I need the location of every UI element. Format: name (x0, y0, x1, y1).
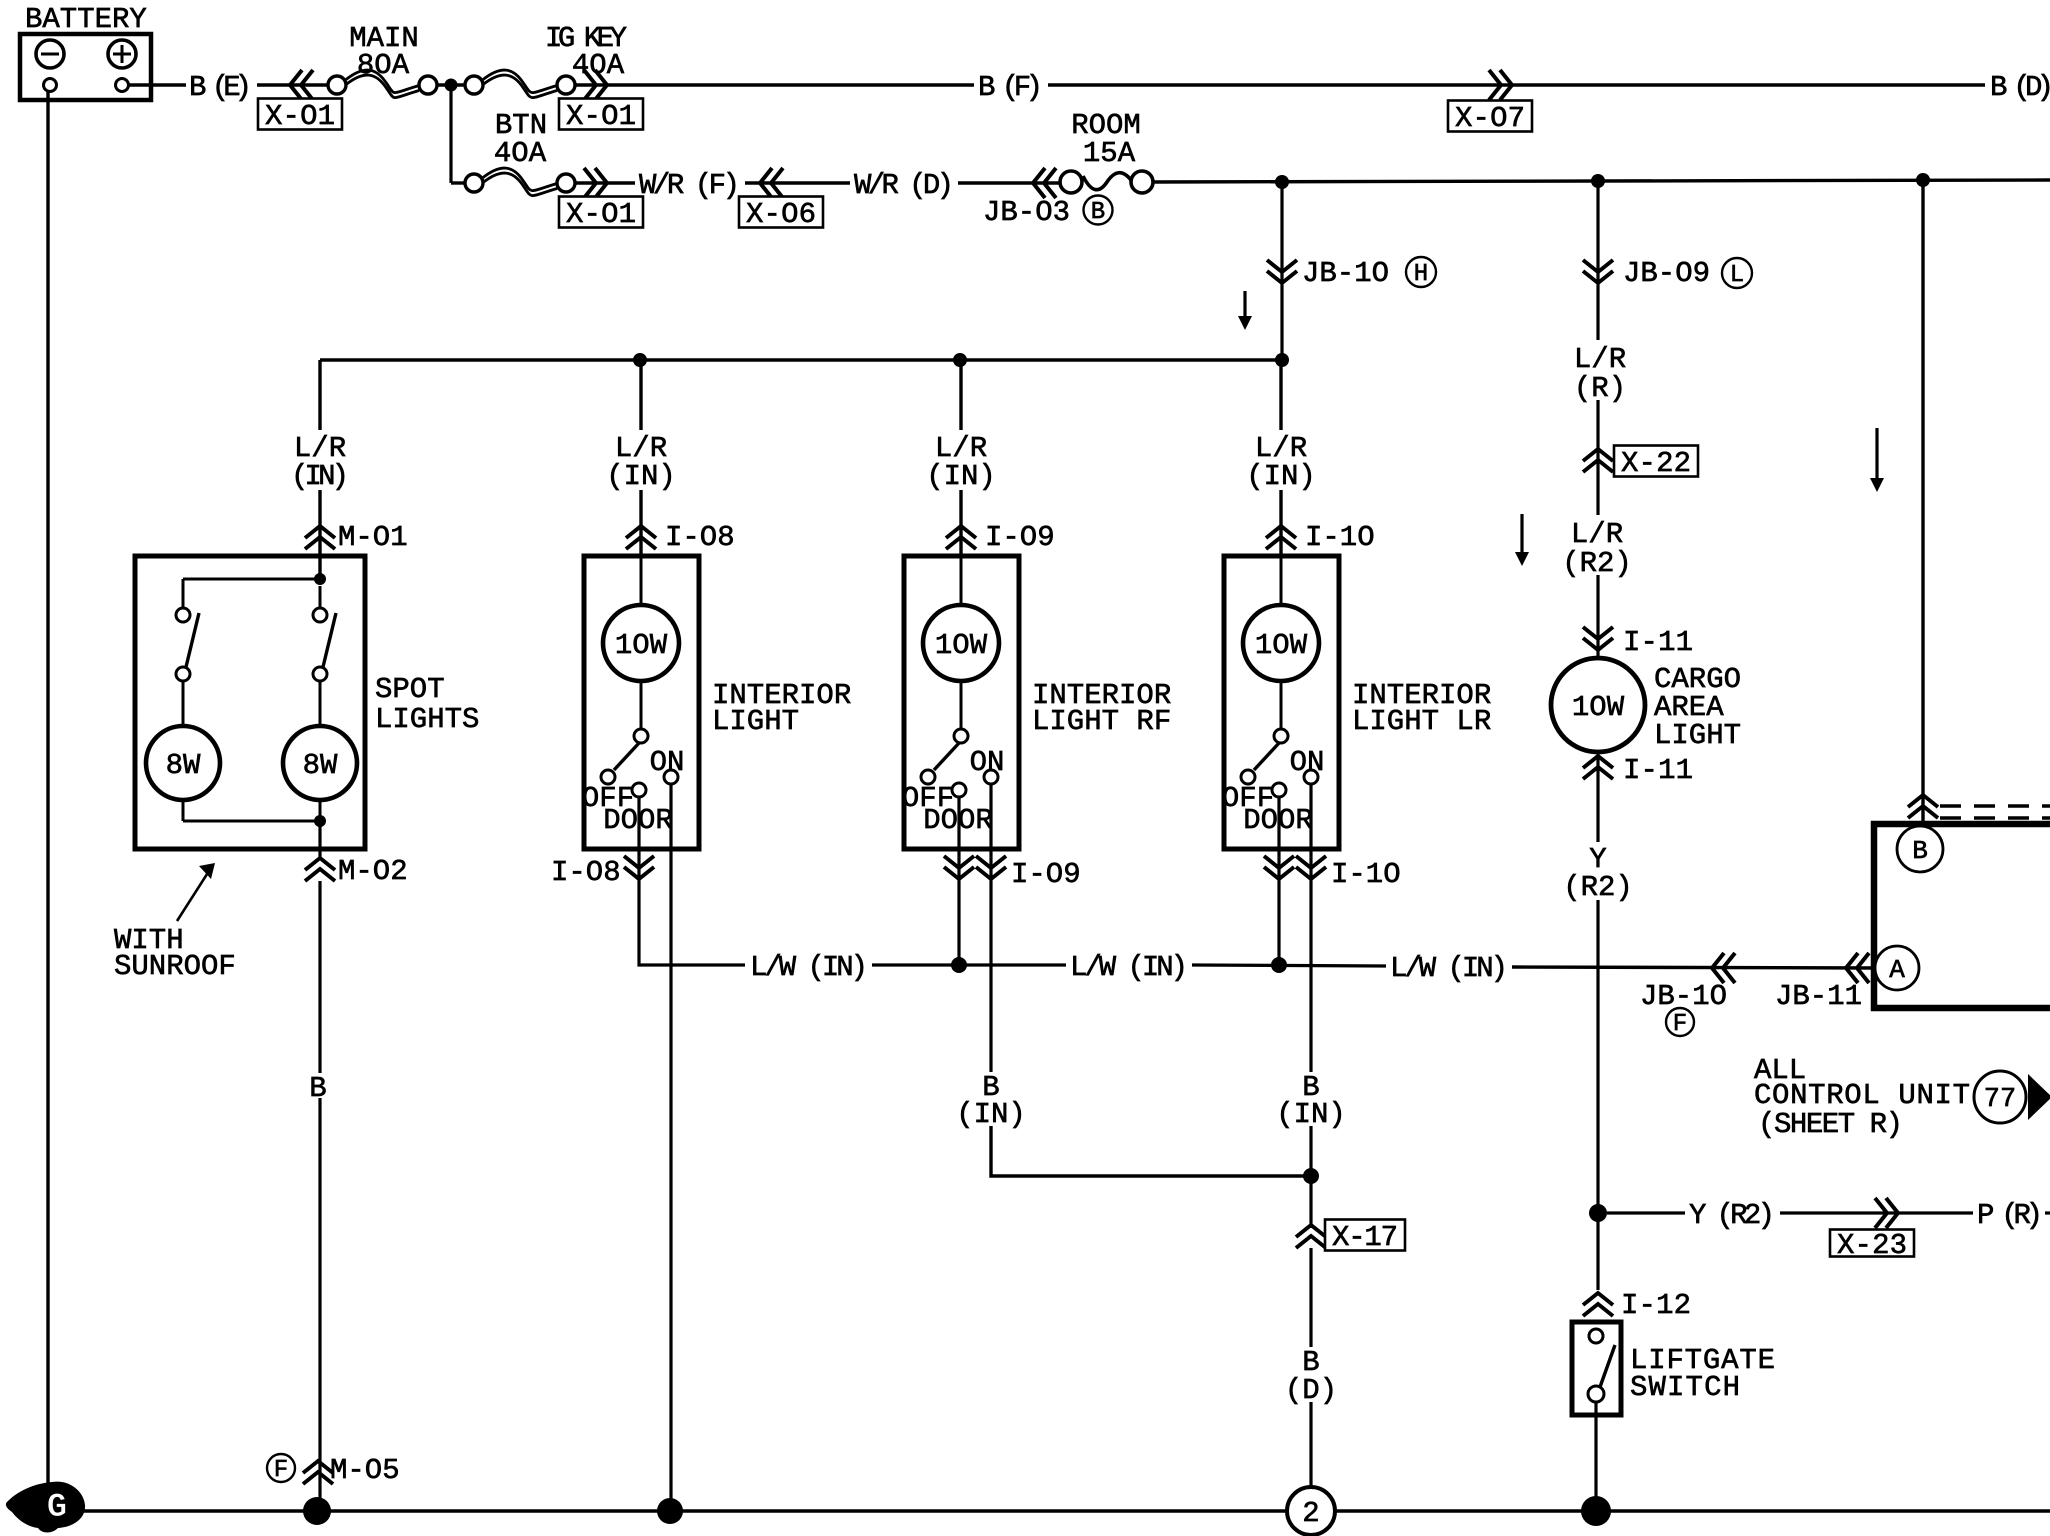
svg-text:2: 2 (1302, 1497, 1319, 1530)
svg-text:1OW: 1OW (615, 629, 668, 662)
wire cargo seg4 (1596, 752, 1599, 842)
connector I-12 (1583, 1289, 1691, 1322)
wire B(F) to B(D) (1048, 83, 1985, 86)
connector JB-10 (H) (1267, 257, 1436, 290)
label OFF I-10 (1222, 782, 1274, 815)
I-09 box (904, 556, 1019, 849)
label ALL CONTROL UNIT (SHEET R) (1754, 1054, 1970, 1141)
wire L/W segment 4 (1512, 967, 1876, 968)
pin B circle (1897, 826, 1943, 872)
label DOOR I-09 (923, 804, 993, 837)
svg-text:B (E): B (E) (189, 71, 252, 104)
label DOOR I-10 (1243, 804, 1313, 837)
label L/R (R2) (1562, 518, 1632, 580)
node right column tap (1916, 173, 1930, 187)
wire I-08 drop upper (639, 360, 642, 430)
svg-text:L/W (IN): L/W (IN) (750, 951, 868, 984)
connector I-10 top (1266, 521, 1375, 554)
label DOOR I-08 (603, 804, 673, 837)
wire cargo seg2 (1596, 400, 1599, 515)
svg-text:X-O6: X-O6 (746, 198, 816, 231)
wire battery positive to B(E) (128, 83, 186, 86)
label ON I-09 (970, 746, 1005, 779)
node L/W lr (1271, 957, 1287, 973)
wire I-10 on out (1309, 784, 1312, 890)
wire I-10 drop lower (1279, 490, 1282, 556)
svg-text:X-O1: X-O1 (566, 100, 636, 133)
connector JB-10 (F) on L/W (1640, 953, 1735, 1038)
label SPOT LIGHTS (375, 673, 479, 736)
connector I-08 top (626, 521, 735, 554)
wire I-09 on out (989, 784, 992, 890)
svg-text:SUNROOF: SUNROOF (114, 950, 236, 983)
wire node down to BTN fuse (451, 85, 466, 183)
svg-text:SPOT: SPOT (375, 673, 445, 706)
bulb 8W right (283, 681, 357, 800)
svg-text:M-O5: M-O5 (330, 1454, 400, 1487)
svg-text:BATTERY: BATTERY (25, 3, 147, 36)
label L/R (IN) I-10 (1246, 432, 1316, 493)
wire W/R(D) to ROOM fuse (958, 181, 1061, 184)
I-08 box (584, 556, 699, 849)
svg-text:(IN): (IN) (1246, 460, 1316, 493)
svg-text:L: L (1730, 262, 1744, 289)
label ON I-08 (650, 746, 685, 779)
wire I-10 drop upper (1279, 360, 1282, 430)
down arrow 2 (1515, 514, 1529, 566)
connector M-01 (305, 521, 408, 554)
wire spot B to ground bus (318, 1098, 321, 1511)
wire X-17 to B(D) (1309, 1248, 1312, 1347)
connector X-01 (male, BTN) (559, 168, 643, 231)
wire I-08 on to ground bus (669, 890, 672, 1511)
svg-text:I-11: I-11 (1623, 626, 1693, 659)
node int1 ground (657, 1498, 683, 1524)
label OFF I-08 (582, 782, 634, 815)
switch liftgate (1588, 1329, 1615, 1402)
label B spot wire (309, 1072, 326, 1105)
fuse BTN 40A (465, 109, 575, 196)
svg-text:JB-O9: JB-O9 (1623, 257, 1710, 290)
svg-text:X-O1: X-O1 (566, 198, 636, 231)
wire I-09 drop lower (959, 490, 962, 556)
svg-text:LIGHT: LIGHT (712, 705, 799, 738)
connector I-11 lower (1583, 754, 1693, 787)
node bus int1 (633, 353, 647, 367)
node JB-10 tap (1275, 175, 1289, 189)
svg-text:F: F (1673, 1011, 1687, 1038)
node L/W rf (951, 957, 967, 973)
svg-text:(IN): (IN) (926, 460, 996, 493)
connector X-01 (male, IG KEY) (559, 70, 643, 133)
svg-text:(R2): (R2) (1563, 871, 1633, 904)
label B (D) lr (1285, 1346, 1337, 1407)
label INTERIOR LIGHT (712, 679, 851, 738)
wire I-09 B(IN) elbow (991, 1126, 1311, 1176)
label L/R (IN) spot (291, 432, 349, 493)
svg-text:B: B (1091, 199, 1105, 226)
svg-text:I-O8: I-O8 (665, 521, 735, 554)
svg-text:I-O9: I-O9 (985, 521, 1055, 554)
wire I-08 drop lower (639, 490, 642, 556)
svg-text:JB-O3: JB-O3 (983, 196, 1070, 229)
connector I-10 bottom (1264, 856, 1401, 891)
svg-text:15A: 15A (1083, 137, 1136, 170)
svg-text:JB-11: JB-11 (1775, 980, 1862, 1013)
battery label (25, 3, 147, 36)
svg-text:M-O2: M-O2 (338, 855, 408, 888)
svg-text:4OA: 4OA (494, 137, 547, 170)
svg-text:I-12: I-12 (1621, 1289, 1691, 1322)
connector X-01 (female) (258, 70, 342, 133)
label L/R (IN) I-08 (606, 432, 676, 493)
svg-text:I-1O: I-1O (1305, 521, 1375, 554)
wire spot to B label (318, 881, 321, 1073)
connector X-06 (female) (739, 168, 823, 231)
label ON I-10 (1290, 746, 1325, 779)
dashed pair to right (1940, 806, 2050, 818)
node battery feed junction (445, 79, 458, 92)
svg-text:B: B (1912, 836, 1928, 866)
label LIFTGATE SWITCH (1630, 1344, 1775, 1404)
svg-text:SWITCH: SWITCH (1630, 1371, 1740, 1404)
node Y R2 branch (1589, 1204, 1607, 1222)
svg-text:LIGHTS: LIGHTS (375, 703, 479, 736)
svg-text:A: A (1889, 955, 1905, 985)
svg-text:I-O9: I-O9 (1011, 858, 1081, 891)
connector M-02 (305, 855, 408, 888)
wire I-10 door out (1277, 797, 1280, 890)
switch I-10 (1241, 681, 1318, 797)
wire L/W segment 2 (872, 963, 1066, 966)
wire I-08 on out (669, 784, 672, 890)
wire spot exit (318, 821, 321, 857)
wire spot internal top (183, 558, 326, 585)
svg-text:X-O7: X-O7 (1455, 102, 1525, 135)
svg-text:(SHEET R): (SHEET R) (1758, 1108, 1903, 1141)
connector JB-11 on L/W (1775, 953, 1869, 1013)
switch I-09 (921, 681, 998, 797)
svg-text:G: G (47, 1489, 67, 1527)
label Y (R2) vert (1563, 843, 1633, 904)
svg-text:I-1O: I-1O (1331, 858, 1401, 891)
ground bus (82, 1509, 2050, 1513)
svg-text:W/R (F): W/R (F) (639, 169, 740, 202)
wire cargo top (1596, 181, 1599, 340)
svg-text:1OW: 1OW (1572, 691, 1625, 724)
label B (IN) lr (1276, 1071, 1346, 1131)
fuse ROOM 15A (1060, 109, 1153, 193)
svg-text:B (D): B (D) (1990, 71, 2050, 104)
bulb 10W I-08 (603, 558, 679, 681)
down arrow 1 (1238, 291, 1252, 330)
label INTERIOR LIGHT RF (1032, 679, 1171, 738)
wire B(D) to ground node 2 (1309, 1402, 1312, 1511)
label W/R (D) (854, 169, 954, 202)
label OFF I-09 (902, 782, 954, 815)
svg-text:77: 77 (1984, 1085, 2016, 1115)
node 2 circle (1287, 1487, 1335, 1535)
wire liftgate to ground (1594, 1402, 1597, 1511)
wire spot drop upper (318, 360, 321, 430)
wire JB-10 column (1280, 182, 1283, 360)
svg-text:1OW: 1OW (935, 629, 988, 662)
wire I-08 door out (637, 797, 640, 890)
label L/W (IN) 3 (1390, 952, 1508, 985)
with sunroof callout arrow (177, 863, 215, 921)
down arrow 3 (1870, 428, 1884, 492)
label L/W (IN) 2 (1070, 951, 1188, 984)
svg-text:(IN): (IN) (606, 460, 676, 493)
svg-text:I-11: I-11 (1623, 754, 1693, 787)
svg-text:L/W (IN): L/W (IN) (1390, 952, 1508, 985)
svg-text:B (F): B (F) (978, 71, 1043, 104)
svg-text:M-O1: M-O1 (338, 521, 408, 554)
node bus lr (1275, 353, 1289, 367)
svg-text:Y (R2): Y (R2) (1689, 1199, 1775, 1232)
circled 77 with arrow (1974, 1071, 2050, 1123)
connector M-05 with (F) (267, 1454, 400, 1487)
I-10 box (1224, 556, 1339, 849)
label B (F) (978, 71, 1043, 104)
label L/W (IN) 1 (750, 951, 868, 984)
wire W/R(F) to W/R(D) (745, 181, 850, 184)
bulb 10W I-10 (1243, 558, 1319, 681)
svg-text:I-O8: I-O8 (551, 856, 621, 889)
wire room feed bus (1153, 180, 2050, 182)
switch I-08 (601, 681, 678, 797)
svg-text:X-O1: X-O1 (265, 100, 335, 133)
wire I-10 on down (1309, 890, 1312, 1072)
battery (box with terminals) (20, 34, 151, 100)
connector JB-09 (L) (1583, 257, 1752, 290)
wire node to IG KEY fuse (437, 83, 466, 86)
svg-text:8W: 8W (303, 749, 338, 782)
connector I-08 bottom (551, 856, 654, 889)
bulb 10W I-09 (923, 558, 999, 681)
label B (D) (1990, 71, 2050, 104)
wire Y(R2) branch (1607, 1211, 1685, 1214)
liftgate switch box (1572, 1322, 1621, 1415)
node spot ground (303, 1497, 331, 1525)
svg-text:L/W (IN): L/W (IN) (1070, 951, 1188, 984)
wire B(E) to MAIN fuse (257, 83, 330, 86)
wire I-09 door to L/W (957, 890, 960, 965)
label B (E) (189, 71, 252, 104)
bulb 8W left (146, 681, 220, 800)
wire I-09 door out (957, 797, 960, 890)
label CARGO AREA LIGHT (1654, 663, 1741, 752)
wire P(R) stub (2045, 1211, 2050, 1214)
svg-text:ON: ON (1290, 746, 1325, 779)
switch spot right (313, 586, 336, 681)
svg-text:X-23: X-23 (1837, 1229, 1907, 1262)
connector X-17 (1296, 1220, 1405, 1255)
svg-text:P (R): P (R) (1977, 1199, 2043, 1232)
fuse IG KEY 40A (465, 22, 627, 98)
svg-text:8W: 8W (166, 749, 201, 782)
svg-text:ON: ON (970, 746, 1005, 779)
wire Y(R2) to P(R) (1780, 1211, 1973, 1214)
spot lights box (135, 556, 365, 849)
label WITH SUNROOF (114, 924, 236, 983)
wire B(F) left segment (575, 83, 974, 86)
connector I-11 upper (1583, 626, 1693, 659)
svg-text:8OA: 8OA (357, 49, 410, 82)
wire spot drop lower (318, 490, 321, 556)
connector I-09 top (946, 521, 1055, 554)
svg-text:W/R (D): W/R (D) (854, 169, 954, 202)
svg-text:ON: ON (650, 746, 685, 779)
wire lr B(IN) to X-17 (1309, 1126, 1312, 1228)
svg-text:(IN): (IN) (291, 460, 349, 493)
svg-text:LIGHT: LIGHT (1654, 719, 1741, 752)
wire L/W segment 3 (1192, 965, 1386, 966)
svg-text:H: H (1414, 261, 1428, 288)
pin A circle (1875, 946, 1919, 990)
wire to W/R(F) (575, 181, 635, 184)
svg-text:(R): (R) (1574, 372, 1626, 405)
wire battery negative to ground (46, 91, 49, 1488)
control unit box (1874, 824, 2050, 1008)
node JB-09 tap (1591, 174, 1605, 188)
node bus rf (953, 353, 967, 367)
label W/R (F) (639, 169, 740, 202)
switch spot left (176, 579, 199, 681)
connector X-22 (1583, 446, 1698, 481)
label INTERIOR LIGHT LR (1352, 679, 1491, 738)
node B(IN) join (1303, 1168, 1319, 1184)
svg-text:X-17: X-17 (1332, 1221, 1398, 1254)
fuse MAIN 80A (328, 22, 437, 98)
connector I-09 bottom (944, 856, 1081, 891)
ground symbol G (6, 1482, 85, 1533)
wire cargo seg3 (1596, 575, 1599, 658)
wire I-09 on to B(IN) (989, 890, 992, 1072)
wire cargo seg5 (1596, 900, 1599, 1290)
svg-text:LIGHT LR: LIGHT LR (1352, 705, 1491, 738)
wire I-08 door to L/W elbow (639, 890, 745, 965)
wire spot internal bottom (183, 800, 326, 827)
label L/R (R) (1574, 343, 1626, 405)
label B (IN) rf (956, 1071, 1026, 1131)
connector X-23 (1830, 1198, 1914, 1262)
wire right column (1921, 180, 1924, 824)
wire interior bus (320, 358, 1282, 361)
connector X-07 (1448, 70, 1532, 135)
svg-text:F: F (274, 1457, 288, 1484)
label Y (R2) horiz (1689, 1199, 1775, 1232)
wire I-09 drop upper (959, 360, 962, 430)
label P (R) (1977, 1199, 2043, 1232)
svg-text:JB-1O: JB-1O (1302, 257, 1389, 290)
node liftgate ground (1581, 1496, 1611, 1526)
svg-text:LIGHT RF: LIGHT RF (1032, 705, 1171, 738)
svg-text:X-22: X-22 (1621, 447, 1691, 480)
bulb 10W cargo (1551, 658, 1645, 752)
svg-text:1OW: 1OW (1255, 629, 1308, 662)
label L/R (IN) I-09 (926, 432, 996, 493)
wire I-10 door to L/W (1277, 890, 1280, 965)
connector JB-03 (B) (983, 168, 1113, 229)
svg-text:B: B (309, 1072, 326, 1105)
connector control-unit B pin (1908, 795, 1938, 818)
